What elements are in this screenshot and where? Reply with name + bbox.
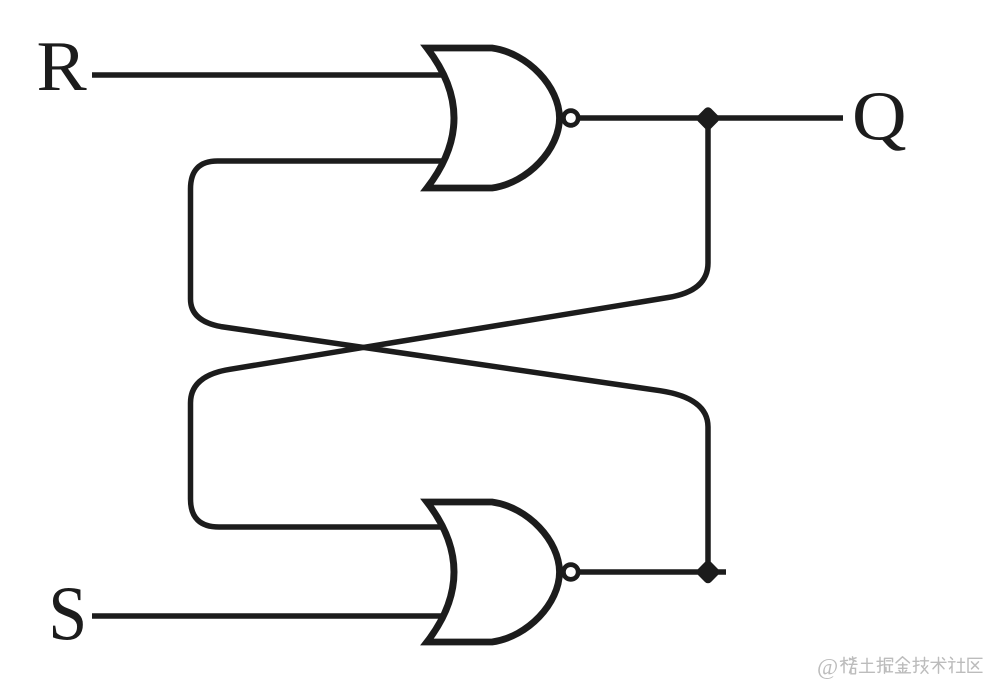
svg-text:@: @ bbox=[817, 655, 838, 680]
svg-text:R: R bbox=[37, 27, 87, 106]
svg-text:Q: Q bbox=[852, 77, 907, 155]
svg-text:S: S bbox=[48, 570, 87, 656]
